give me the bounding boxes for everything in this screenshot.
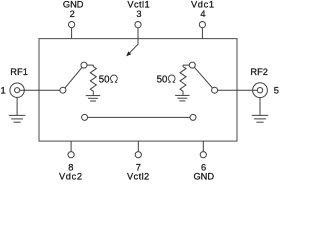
- switch SW1 arm: [65, 67, 82, 88]
- switch SW1 pivot node: [60, 87, 66, 93]
- pin 8 Vdc2 label: [59, 163, 83, 182]
- svg-text:3: 3: [136, 9, 141, 19]
- ground (R2): [175, 95, 189, 101]
- pin 4 terminal circle: [199, 22, 205, 28]
- device outline box: [39, 39, 237, 142]
- svg-text:5: 5: [274, 85, 279, 95]
- svg-text:50: 50: [99, 74, 110, 85]
- switch SW2 throw contact (to R2): [189, 62, 195, 68]
- svg-text:50: 50: [157, 74, 168, 85]
- wire RF2 to switch pivot: [218, 89, 258, 91]
- resistor R2 50 ohm: [180, 65, 186, 95]
- connector RF1 label: [1, 67, 28, 95]
- wire contact to R1: [87, 64, 93, 66]
- switch SW1 thru contact: [82, 114, 88, 120]
- pin 2 GND label: [63, 0, 84, 19]
- wire pin2 to box: [71, 28, 73, 39]
- svg-text:4: 4: [200, 9, 205, 19]
- svg-text:GND: GND: [63, 0, 84, 10]
- switch SW2 arm: [194, 67, 212, 88]
- pin 6 terminal circle: [200, 152, 206, 158]
- svg-text:Vctl1: Vctl1: [127, 0, 150, 10]
- pin 2 terminal circle: [69, 22, 75, 28]
- pin 8 terminal circle: [68, 152, 74, 158]
- pin 3 Vctl1 label: [127, 0, 150, 19]
- connector RF2 label: [250, 67, 279, 95]
- svg-text:GND: GND: [193, 171, 214, 181]
- svg-text:Vdc2: Vdc2: [59, 171, 83, 181]
- svg-text:2: 2: [70, 9, 75, 19]
- wire contact to R2: [183, 64, 189, 66]
- wire pin7 to box: [137, 141, 139, 152]
- resistor R1 50 ohm: [90, 65, 96, 95]
- ground (RF2 shell): [252, 97, 269, 122]
- wire pin4 to box: [201, 28, 203, 39]
- ground (R1): [86, 96, 100, 101]
- control arrowhead: [126, 51, 131, 56]
- pin 4 Vdc1 label: [191, 0, 215, 19]
- wire pin6 to box: [202, 141, 204, 152]
- pin 7 Vctl2 label: [127, 163, 150, 182]
- switch SW1 throw contact (to R1): [81, 62, 87, 68]
- svg-text:RF1: RF1: [10, 67, 28, 77]
- svg-text:RF2: RF2: [250, 67, 268, 77]
- pin 3 terminal circle: [135, 22, 141, 28]
- svg-text:1: 1: [1, 85, 6, 95]
- wire thru line between SW1 and SW2: [88, 116, 190, 118]
- connector RF2 coax symbol: [253, 83, 268, 98]
- wire pin8 to box: [70, 141, 72, 152]
- ground (RF1 shell): [9, 97, 26, 122]
- wire RF1 to switch pivot: [20, 89, 60, 91]
- switch SW2 pivot node: [212, 87, 218, 93]
- svg-text:Vctl2: Vctl2: [127, 171, 150, 181]
- connector RF1 coax symbol: [10, 83, 24, 97]
- switch SW2 thru contact: [190, 114, 196, 120]
- pin 7 terminal circle: [135, 152, 141, 158]
- pin 6 GND label: [193, 163, 214, 182]
- wire pin3 control line: [128, 28, 138, 55]
- svg-text:Vdc1: Vdc1: [191, 0, 215, 10]
